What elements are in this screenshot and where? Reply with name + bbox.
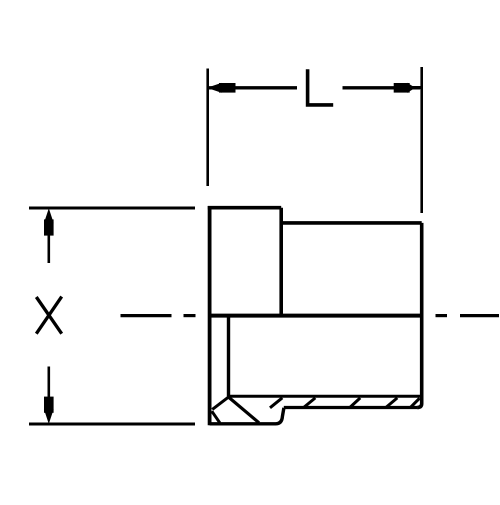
dimension X: up arrowhead (45, 210, 53, 223)
dimension L: right extension line (420, 67, 423, 213)
part outline: foot bottom and corner (210, 408, 284, 424)
part outline: bore line at centerline (210, 314, 422, 318)
part outline: foot top chamfer (212, 397, 229, 410)
part outline: collar right edge (279, 208, 283, 316)
dimension L: left dimension line segment (209, 86, 297, 89)
centerline: left short dash (184, 314, 196, 317)
centerline: left long dash (121, 314, 172, 317)
dimension X: lower dimension line segment (47, 367, 50, 403)
hatch: band diagonal 1 (270, 398, 282, 408)
hatch: foot large diagonal (229, 398, 259, 423)
centerline: right long dash (460, 314, 499, 317)
dimension X: bottom extension line (29, 423, 195, 426)
centerline: right short dash (436, 314, 448, 317)
hatch: band diagonal 3 (350, 398, 361, 408)
dimension L: left extension line (206, 69, 209, 187)
part outline: body right edge (417, 223, 422, 408)
hatch: foot small diagonal (212, 411, 220, 423)
hatch: band diagonal 4 (386, 398, 398, 408)
part outline: socket inner vertical (227, 316, 230, 397)
dimension L: letter L (308, 69, 334, 105)
dimension L: right dimension line segment (343, 86, 421, 89)
part outline: section band bottom line (284, 406, 418, 409)
dimension L: left arrowhead (208, 84, 221, 92)
dimension L: right arrowhead (407, 86, 421, 89)
dimension X: down arrowhead (45, 410, 53, 423)
part outline: section band top line (229, 395, 422, 398)
hatch: band diagonal 5 (410, 398, 419, 407)
dimension X: top extension line (29, 207, 195, 210)
dimension X: letter X (36, 297, 61, 334)
hatch: band diagonal 2 (304, 398, 316, 408)
part outline: left edge (208, 206, 212, 425)
dimension X: upper dimension line segment (47, 230, 50, 263)
part outline: body top edge (281, 221, 422, 225)
part outline: collar top edge (208, 206, 281, 210)
